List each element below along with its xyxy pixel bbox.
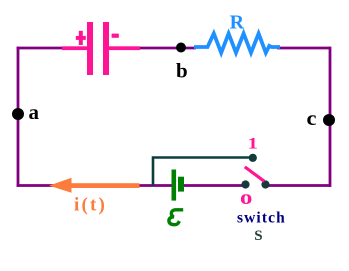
- svg-text:b: b: [176, 59, 188, 83]
- svg-text:1: 1: [248, 135, 258, 153]
- svg-text:a: a: [29, 100, 40, 124]
- svg-text:S: S: [254, 228, 262, 244]
- svg-text:c: c: [307, 107, 317, 130]
- svg-text:i(t): i(t): [74, 195, 107, 216]
- svg-text:o: o: [240, 186, 252, 209]
- svg-text:switch: switch: [237, 210, 286, 227]
- svg-text:R: R: [230, 11, 245, 33]
